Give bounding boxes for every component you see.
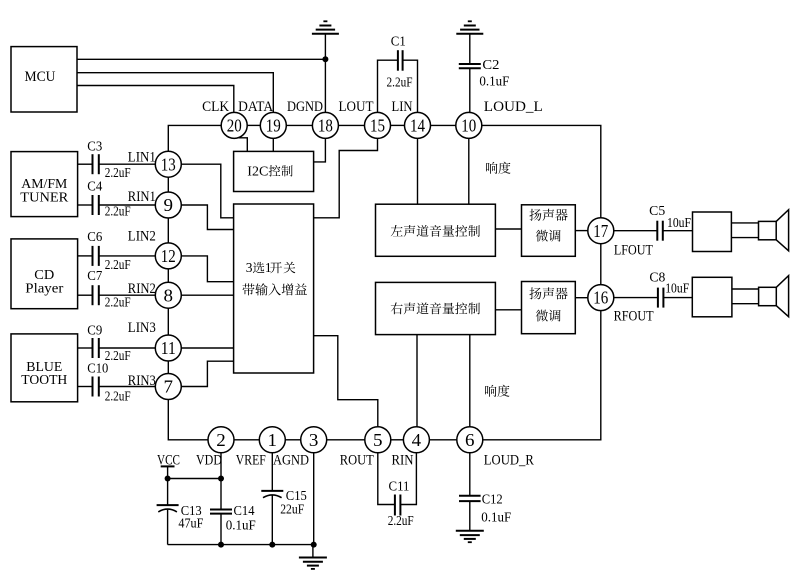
capacitor C12 <box>459 491 512 524</box>
wire pin 17 to C5 <box>614 230 658 232</box>
svg-text:2.2uF: 2.2uF <box>105 257 131 272</box>
svg-text:47uF: 47uF <box>178 516 203 531</box>
capacitor C10 <box>87 361 131 404</box>
ground for C2 (top) <box>456 21 483 34</box>
wire pin 8 to pin 11 bus <box>167 308 169 335</box>
svg-text:LIN: LIN <box>392 99 413 115</box>
wire pin 20 to I2C block <box>239 138 248 152</box>
svg-text:7: 7 <box>164 377 174 397</box>
wire pin 1 to pin 3 <box>285 439 300 441</box>
wire pin 6 to C12 <box>469 453 471 496</box>
wire pin 19 to pin 18 <box>286 124 312 126</box>
wire left volume to trim <box>495 228 521 230</box>
wire pin 18 to pin 15 <box>338 124 364 126</box>
wire pin 14 to left volume control <box>417 138 419 204</box>
svg-text:1: 1 <box>265 260 272 275</box>
left speaker box <box>693 212 732 252</box>
pin 14 LIN <box>392 99 431 138</box>
junction on DGND net <box>322 56 328 62</box>
svg-text:Player: Player <box>25 280 64 295</box>
wire ground to C2 <box>469 34 471 64</box>
svg-text:C6: C6 <box>87 229 102 244</box>
wire C11 to pin 4 <box>401 453 417 505</box>
wire VCC to C13 <box>167 466 169 505</box>
svg-text:10uF: 10uF <box>667 215 691 230</box>
junction VCC-VDD link right <box>218 476 224 482</box>
svg-text:C11: C11 <box>389 478 410 493</box>
wire C13 to rail <box>167 510 169 545</box>
svg-text:2.2uF: 2.2uF <box>105 204 131 219</box>
svg-text:4: 4 <box>412 430 422 450</box>
svg-text:13: 13 <box>161 154 176 174</box>
wire pin 1 to C15 <box>271 453 273 491</box>
wire C7 to pin 8 <box>99 294 156 296</box>
svg-text:14: 14 <box>410 116 425 136</box>
pin 9 RIN1 <box>128 189 182 218</box>
svg-text:C10: C10 <box>87 361 108 376</box>
svg-text:10uF: 10uF <box>665 281 689 296</box>
svg-text:LIN3: LIN3 <box>128 320 156 336</box>
svg-text:16: 16 <box>593 288 608 308</box>
VCC terminal <box>157 452 180 468</box>
wire C5 to left speaker <box>663 230 693 232</box>
svg-text:5: 5 <box>373 430 383 450</box>
wire pin 2 to pin 1 <box>234 439 259 441</box>
pin 20 CLK <box>202 99 247 138</box>
wire pin 4 to pin 6 <box>429 439 456 441</box>
svg-text:0.1uF: 0.1uF <box>479 73 509 88</box>
wire C2 to pin 10 <box>469 68 471 112</box>
svg-text:C2: C2 <box>482 57 499 72</box>
MCU block <box>11 47 77 112</box>
wire pin 2 to C14 <box>220 453 222 510</box>
capacitor C5 <box>649 203 691 241</box>
svg-text:RIN: RIN <box>392 452 414 468</box>
svg-text:DGND: DGND <box>287 99 323 115</box>
wire C14 to rail <box>220 514 222 545</box>
svg-text:LIN2: LIN2 <box>128 228 156 244</box>
ground for C12 <box>456 531 484 542</box>
wire source to C6 <box>78 255 93 257</box>
wire pin 15 to selector LOUT <box>314 138 378 217</box>
I2C control block U1a <box>234 151 314 191</box>
pin 1 VREF <box>236 427 285 469</box>
junction C14 rail <box>218 542 224 548</box>
wire C3 to pin 13 <box>99 163 156 165</box>
svg-text:LIN1: LIN1 <box>128 150 156 166</box>
svg-text:2.2uF: 2.2uF <box>105 388 131 403</box>
wire pin 10 to pin 17 column <box>482 125 601 217</box>
wire right volume to pin 4 <box>416 335 418 427</box>
pin 11 LIN3 <box>128 320 182 361</box>
wire MCU to pin 19 DATA <box>77 73 273 113</box>
pin 2 VDD <box>196 427 234 469</box>
pin 7 RIN3 <box>128 373 182 400</box>
svg-text:LOUT: LOUT <box>339 99 374 115</box>
pin 15 LOUT <box>339 99 391 138</box>
BLUE TOOTH block <box>11 334 78 402</box>
svg-text:RIN3: RIN3 <box>128 373 156 389</box>
wire pin 7 to pin 2 row <box>168 400 208 440</box>
svg-text:DATA: DATA <box>238 99 273 115</box>
pin 16 RFOUT <box>588 285 654 325</box>
svg-text:ROUT: ROUT <box>340 452 374 468</box>
capacitor C13 <box>157 503 204 531</box>
svg-text:RIN2: RIN2 <box>128 281 156 297</box>
pin 6 LOUD_R <box>457 427 534 469</box>
pin 12 LIN2 <box>128 228 182 269</box>
wire pin 20 to pin 19 <box>247 124 260 126</box>
CD Player block <box>11 239 78 309</box>
capacitor C9 <box>87 323 131 364</box>
right volume control block U1d <box>376 282 496 334</box>
wire pin 11 to selector <box>181 347 233 349</box>
capacitor C2 <box>459 57 510 88</box>
wire source to C9 <box>78 347 93 349</box>
svg-text:LOUD_L: LOUD_L <box>484 99 543 115</box>
svg-text:C9: C9 <box>87 323 102 338</box>
junction VCC-VDD link left <box>165 476 171 482</box>
svg-text:2.2uF: 2.2uF <box>387 75 413 90</box>
wire pin 7 to selector <box>181 361 233 386</box>
loudness label right <box>485 385 510 397</box>
wire right trim to pin 16 <box>575 297 588 299</box>
wire source to C3 <box>78 163 93 165</box>
svg-text:12: 12 <box>161 246 176 266</box>
ground DGND (top) <box>312 21 339 34</box>
svg-text:TOOTH: TOOTH <box>21 372 67 387</box>
svg-text:20: 20 <box>227 116 242 136</box>
wire source to C4 <box>78 204 93 206</box>
svg-text:22uF: 22uF <box>280 502 304 517</box>
svg-text:I2C: I2C <box>247 165 268 180</box>
wire pin 9 to selector <box>181 205 233 230</box>
ground rail <box>168 544 314 546</box>
wire pin 9 to pin 12 bus <box>167 218 169 243</box>
svg-text:RIN1: RIN1 <box>128 189 156 205</box>
svg-text:0.1uF: 0.1uF <box>226 518 256 533</box>
wire rail to ground <box>312 545 314 558</box>
left speaker trim block U1e <box>522 205 576 256</box>
svg-text:RFOUT: RFOUT <box>614 309 654 325</box>
wire pin 15 to C1 <box>378 60 398 112</box>
wire source to C10 <box>78 386 93 388</box>
junction C15 rail <box>269 542 275 548</box>
loudness label left <box>486 162 511 174</box>
wire C4 to pin 9 <box>99 204 156 206</box>
wire pin13 bus to pin 20 <box>168 125 221 151</box>
wire VCC to VDD <box>168 478 221 480</box>
capacitor C1 <box>387 34 413 90</box>
capacitor C6 <box>87 229 131 272</box>
capacitor C3 <box>87 138 131 180</box>
svg-text:2.2uF: 2.2uF <box>105 348 131 363</box>
wire pin 3 to rail <box>313 453 315 545</box>
wire C10 to pin 7 <box>99 386 156 388</box>
wire pin 16 to pin 6 row <box>483 311 601 440</box>
wire pin 5 to C11 <box>378 453 395 505</box>
pin 13 LIN1 <box>128 150 182 178</box>
svg-text:15: 15 <box>370 116 385 136</box>
AM/FM TUNER block <box>11 152 78 217</box>
wire pin 19 to I2C block <box>272 138 274 151</box>
wire selector ROUT to pin 5 <box>314 336 378 427</box>
wire pin 13 to pin 9 bus <box>167 177 169 192</box>
svg-text:VCC: VCC <box>157 452 180 468</box>
svg-text:MCU: MCU <box>25 69 56 85</box>
wire pin 14 to pin 10 <box>431 124 456 126</box>
svg-text:0.1uF: 0.1uF <box>481 509 511 524</box>
wire pin 16 to C8 <box>614 297 658 299</box>
wire pin 8 to selector <box>181 294 233 296</box>
left volume control block U1c <box>376 204 496 256</box>
svg-text:2.2uF: 2.2uF <box>105 165 131 180</box>
svg-text:LFOUT: LFOUT <box>614 243 653 259</box>
svg-text:8: 8 <box>164 285 174 305</box>
right speaker horn <box>732 276 789 317</box>
svg-text:C1: C1 <box>391 34 406 49</box>
wire pin 12 to selector <box>181 256 233 282</box>
svg-text:VREF: VREF <box>236 452 266 468</box>
capacitor C4 <box>87 179 131 219</box>
pin 5 ROUT <box>340 427 391 469</box>
wire pin 13 to selector <box>181 164 233 218</box>
wire pin 17 to pin 16 <box>600 244 602 285</box>
svg-text:18: 18 <box>318 116 333 136</box>
right speaker trim block U1f <box>522 282 576 334</box>
svg-text:TUNER: TUNER <box>20 190 68 205</box>
wire pin 11 to pin 7 bus <box>167 361 169 374</box>
svg-text:C3: C3 <box>87 138 102 153</box>
wire C12 to ground <box>469 501 471 531</box>
wire C8 to right speaker <box>663 297 692 299</box>
svg-text:C4: C4 <box>87 179 102 194</box>
svg-text:C7: C7 <box>87 268 102 283</box>
svg-text:10: 10 <box>461 116 476 136</box>
pin 18 DGND <box>287 99 338 138</box>
capacitor C7 <box>87 268 131 310</box>
svg-text:17: 17 <box>593 221 608 241</box>
svg-text:AGND: AGND <box>273 452 309 468</box>
pin 19 DATA <box>238 99 286 138</box>
wire left trim to pin 17 <box>575 230 588 232</box>
svg-text:6: 6 <box>465 430 475 450</box>
svg-text:3: 3 <box>309 430 319 450</box>
svg-text:2.2uF: 2.2uF <box>388 513 414 528</box>
wire pin 5 to pin 4 <box>391 439 404 441</box>
wire MCU to DGND net <box>77 58 325 60</box>
pin 3 AGND <box>273 427 327 469</box>
capacitor C11 <box>388 478 414 528</box>
svg-text:11: 11 <box>161 338 176 358</box>
svg-text:C5: C5 <box>649 203 665 218</box>
wire right volume to trim <box>495 309 521 311</box>
wire source to C7 <box>78 294 93 296</box>
wire pin 10 to left volume control <box>468 138 470 204</box>
capacitor C8 <box>649 270 689 308</box>
svg-text:19: 19 <box>266 116 281 136</box>
svg-text:2: 2 <box>216 430 226 450</box>
pin 8 RIN2 <box>128 281 182 308</box>
svg-text:C8: C8 <box>649 270 665 285</box>
wire DGND ground to pin 18 <box>324 34 326 113</box>
svg-text:VDD: VDD <box>196 452 222 468</box>
svg-text:1: 1 <box>268 430 278 450</box>
wire MCU to pin 20 CLK <box>77 86 234 113</box>
svg-text:C12: C12 <box>482 491 503 506</box>
wire pin 3 to pin 5 <box>327 439 365 441</box>
wire right volume to pin 6 <box>469 335 471 427</box>
wire C15 to rail <box>271 495 273 544</box>
input selector block U1b <box>234 204 314 373</box>
wire C6 to pin 12 <box>99 255 156 257</box>
svg-text:9: 9 <box>164 195 174 215</box>
svg-text:2.2uF: 2.2uF <box>105 295 131 310</box>
pin 10 LOUD_L <box>456 99 543 138</box>
wire C9 to pin 11 <box>99 347 156 349</box>
capacitor C14 <box>210 503 256 533</box>
svg-text:C14: C14 <box>234 503 255 518</box>
ground AGND (bottom) <box>299 558 327 569</box>
svg-text:CLK: CLK <box>202 99 229 115</box>
pin 17 LFOUT <box>588 218 653 259</box>
right speaker box <box>692 277 732 317</box>
wire C1 to pin 14 <box>403 60 418 112</box>
wire pin 12 to pin 8 bus <box>167 269 169 282</box>
junction AGND rail <box>311 542 317 548</box>
wire pin 15 to pin 14 <box>391 124 405 126</box>
left speaker horn <box>731 210 788 251</box>
svg-text:LOUD_R: LOUD_R <box>484 452 534 468</box>
wire pin 18 to I2C block <box>314 138 326 162</box>
capacitor C15 <box>261 488 307 516</box>
svg-text:3: 3 <box>246 260 253 275</box>
pin 4 RIN <box>392 427 430 469</box>
